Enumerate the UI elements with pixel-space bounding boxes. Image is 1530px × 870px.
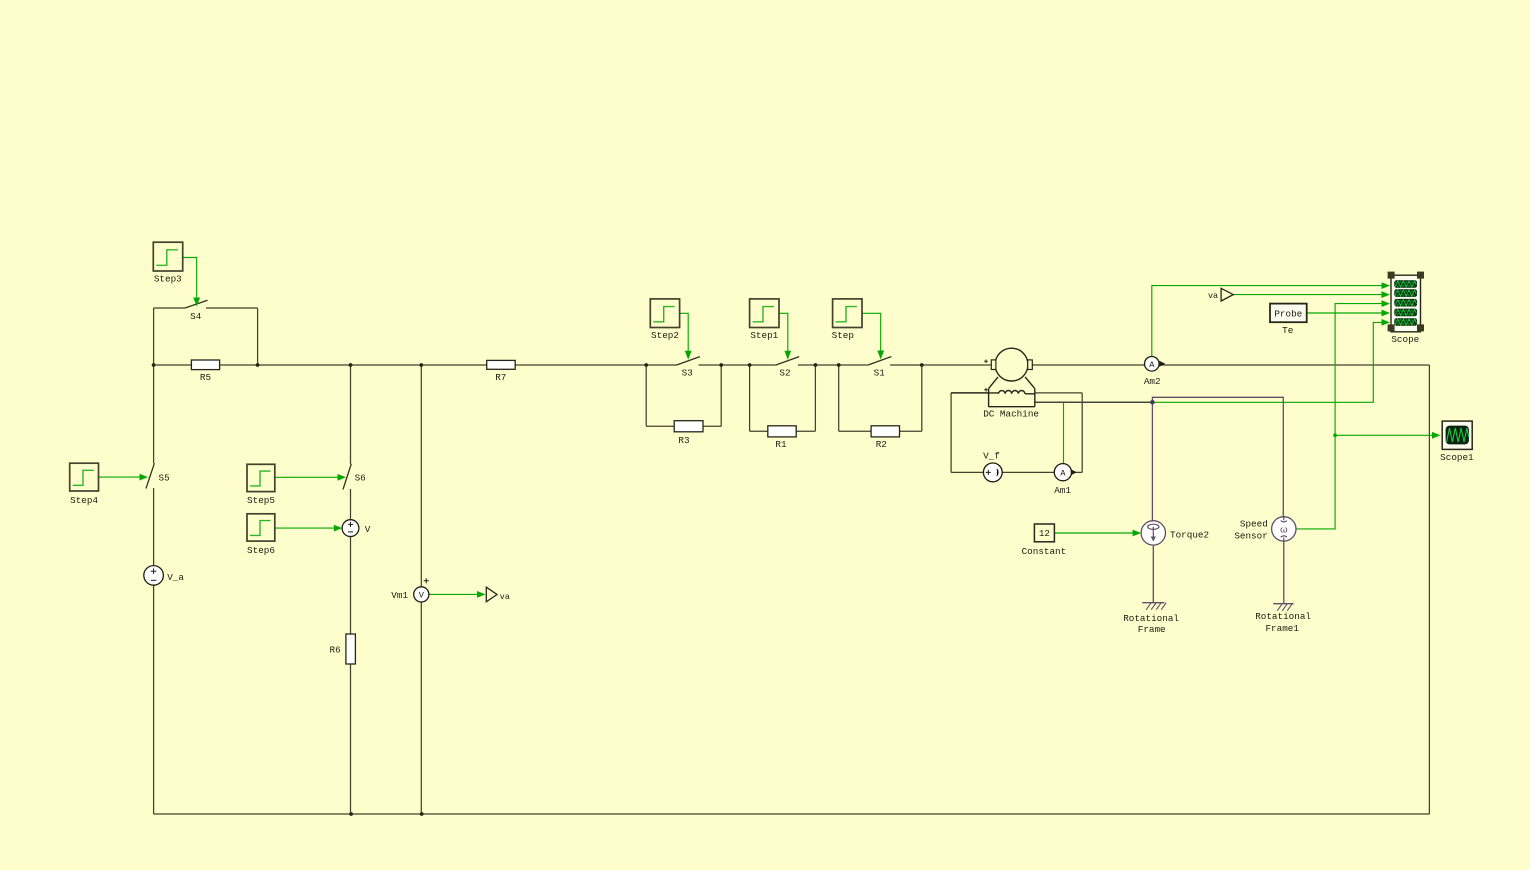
svg-text:Te: Te <box>1282 325 1293 336</box>
svg-text:R2: R2 <box>876 439 887 450</box>
svg-text:R6: R6 <box>330 644 341 655</box>
svg-text:V: V <box>365 524 371 535</box>
svg-text:V_f: V_f <box>983 451 1000 462</box>
svg-text:S3: S3 <box>682 367 693 378</box>
svg-text:Step2: Step2 <box>651 330 679 341</box>
svg-text:Frame1: Frame1 <box>1265 623 1299 634</box>
svg-text:va: va <box>500 592 510 602</box>
svg-text:Rotational: Rotational <box>1255 611 1311 622</box>
svg-text:A: A <box>1149 360 1155 370</box>
svg-text:R3: R3 <box>678 435 689 446</box>
svg-text:S6: S6 <box>355 473 366 484</box>
svg-text:Step: Step <box>832 330 854 341</box>
svg-text:R1: R1 <box>775 439 787 450</box>
svg-text:DC Machine: DC Machine <box>983 409 1039 420</box>
svg-text:Step5: Step5 <box>247 495 275 506</box>
svg-text:Constant: Constant <box>1022 546 1067 557</box>
svg-text:Frame: Frame <box>1138 624 1166 635</box>
svg-text:V_a: V_a <box>167 572 184 583</box>
svg-text:S1: S1 <box>874 367 886 378</box>
svg-text:V: V <box>419 591 425 601</box>
svg-text:Step6: Step6 <box>247 545 275 556</box>
svg-text:Speed: Speed <box>1240 519 1268 530</box>
svg-text:Vm1: Vm1 <box>391 590 408 601</box>
svg-text:R5: R5 <box>200 372 211 383</box>
svg-text:Probe: Probe <box>1274 308 1302 319</box>
svg-text:Am1: Am1 <box>1054 485 1071 496</box>
svg-text:Torque2: Torque2 <box>1170 530 1209 541</box>
svg-text:12: 12 <box>1039 528 1050 539</box>
svg-text:Step3: Step3 <box>154 273 182 284</box>
svg-text:S5: S5 <box>159 473 170 484</box>
svg-text:Step4: Step4 <box>70 495 98 506</box>
svg-text:S2: S2 <box>779 367 790 378</box>
svg-text:R7: R7 <box>495 372 506 383</box>
svg-text:Scope1: Scope1 <box>1440 452 1474 463</box>
svg-text:A: A <box>1060 469 1066 479</box>
svg-text:Rotational: Rotational <box>1123 613 1179 624</box>
svg-text:Step1: Step1 <box>750 330 778 341</box>
svg-text:va: va <box>1208 291 1218 301</box>
svg-text:ω: ω <box>1280 525 1288 536</box>
svg-text:Sensor: Sensor <box>1234 531 1267 542</box>
svg-text:S4: S4 <box>190 311 202 322</box>
svg-text:Scope: Scope <box>1391 334 1419 345</box>
svg-text:Am2: Am2 <box>1144 376 1161 387</box>
